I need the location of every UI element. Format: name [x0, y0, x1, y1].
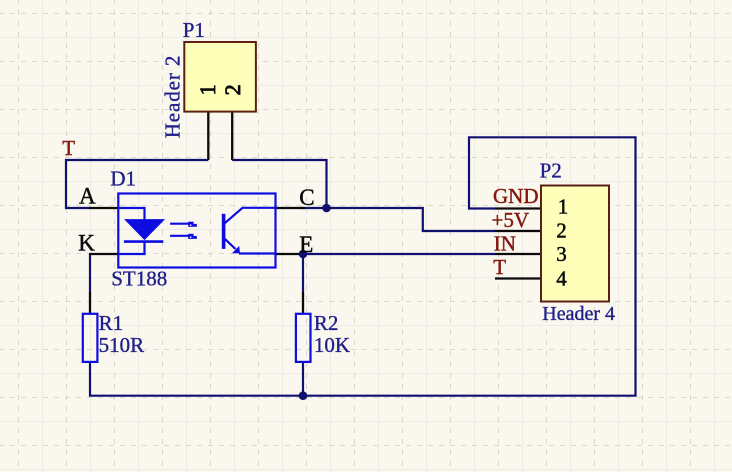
wire T-net: P1 pin1 to opto anode: [66, 160, 208, 208]
wire K to R1 top: [89, 254, 91, 292]
wire +5V: C junction to P2 pin2: [300, 208, 495, 231]
svg-text:T: T: [62, 136, 75, 160]
R1 pin top: [89, 292, 91, 314]
phototransistor collector: [225, 208, 276, 224]
svg-text:Header 4: Header 4: [542, 303, 615, 325]
R2 pin top: [302, 292, 304, 314]
junction C node: [322, 204, 331, 213]
svg-text:T: T: [493, 255, 506, 279]
svg-text:3: 3: [556, 242, 567, 266]
P2 pin 1 line: [495, 207, 541, 209]
P1 pin 2 line: [231, 112, 233, 160]
svg-text:1: 1: [195, 84, 220, 95]
LED anode internal wire: [118, 208, 144, 220]
light arrow 2: [170, 235, 189, 237]
svg-text:4: 4: [556, 267, 567, 291]
opto pin C line: [276, 207, 306, 209]
svg-text:ST188: ST188: [111, 267, 167, 291]
P2 pin 4 line: [495, 277, 541, 279]
svg-text:Header 2: Header 2: [160, 55, 184, 139]
LED cathode bar: [124, 240, 163, 243]
svg-text:D1: D1: [110, 167, 136, 191]
svg-text:R2: R2: [314, 311, 339, 335]
svg-text:A: A: [79, 183, 96, 208]
svg-text:1: 1: [558, 194, 569, 218]
svg-text:2: 2: [220, 84, 245, 95]
LED triangle: [125, 220, 164, 240]
phototransistor emitter: [225, 239, 236, 249]
P2 pin 3 line: [495, 253, 541, 255]
svg-text:E: E: [299, 232, 313, 257]
light arrow 1: [170, 223, 189, 225]
opto pin A line: [89, 207, 118, 209]
wire R2 bottom to rail: [302, 362, 304, 396]
junction E node: [299, 250, 308, 259]
svg-text:P2: P2: [540, 158, 562, 182]
emitter arrowhead: [232, 246, 240, 254]
opto pin K line: [89, 253, 118, 255]
svg-text:C: C: [299, 185, 314, 210]
svg-text:P1: P1: [183, 18, 205, 42]
svg-text:2: 2: [556, 218, 567, 242]
P2 pin 2 line: [495, 230, 541, 232]
wire E junction down to R2 top: [302, 254, 304, 292]
P1 pin 1 line: [207, 112, 209, 160]
wire IN: opto emitter to P2 pin3: [300, 253, 495, 255]
svg-text:K: K: [78, 230, 95, 255]
wire +5V: P1 pin2 down to C junction: [232, 160, 326, 208]
junction bottom rail node: [299, 391, 308, 400]
svg-text:R1: R1: [99, 311, 124, 335]
opto D1 body: [118, 194, 275, 268]
svg-text:10K: 10K: [314, 333, 350, 357]
resistor R1 body: [83, 314, 98, 362]
svg-text:IN: IN: [494, 232, 516, 256]
connector P1 body: [184, 42, 256, 112]
svg-text:510R: 510R: [99, 333, 145, 357]
connector P2 body: [541, 186, 609, 302]
wire GND loop: P2 pin1 around right side to bottom rail: [90, 137, 636, 395]
resistor R2 body: [296, 314, 311, 362]
LED cathode internal wire: [118, 241, 144, 254]
opto pin E line: [276, 253, 306, 255]
svg-text:GND: GND: [493, 184, 539, 208]
phototransistor base bar: [222, 214, 226, 249]
svg-text:+5V: +5V: [492, 208, 530, 232]
